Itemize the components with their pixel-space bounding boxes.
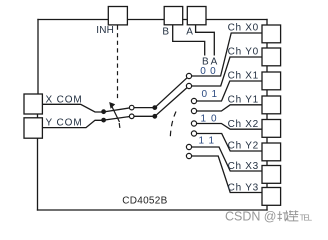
wire right column connectors <box>266 43 268 210</box>
pin box Ch X1 <box>262 72 281 90</box>
svg-text:Ch X3: Ch X3 <box>228 161 259 172</box>
wire contact 10Y to Ch Y2 <box>196 134 261 152</box>
contact circle 01X <box>191 98 196 103</box>
wire right rail to Ch X0 <box>266 20 268 26</box>
contact circle 01Y <box>191 108 196 113</box>
contact circle X break <box>129 105 134 110</box>
junction dot Y COM <box>101 118 106 123</box>
svg-text:B: B <box>162 27 169 38</box>
svg-text:Ch Y0: Ch Y0 <box>228 47 259 58</box>
wire Y switch segment <box>106 117 130 120</box>
contact circle 11X <box>186 144 191 149</box>
svg-text:Ch X1: Ch X1 <box>228 71 259 82</box>
wire X switch segment <box>106 108 130 112</box>
pin box Ch X0 <box>262 25 281 43</box>
contact circle Y break <box>129 114 134 119</box>
contact circle 10X <box>191 121 196 126</box>
wire Y switch to pivot <box>134 115 155 117</box>
dashed wiper travel arc <box>170 112 176 138</box>
wire X switch to pivot <box>134 107 155 109</box>
contact circle 00Y <box>186 83 191 88</box>
wire bottom rail <box>38 209 268 211</box>
pin box Ch X2 <box>262 120 281 138</box>
wire Y COM box to bottom rail <box>37 138 39 210</box>
svg-text:A: A <box>186 27 193 38</box>
watermark glyph cheng <box>278 210 289 221</box>
wire X wiper <box>155 78 187 107</box>
svg-text:Ch Y3: Ch Y3 <box>228 182 259 193</box>
svg-text:INH: INH <box>96 25 114 36</box>
wire Y COM to switch <box>42 120 102 127</box>
actuator arrowhead <box>109 102 115 109</box>
pivot dot X wiper <box>152 105 157 110</box>
wire contact 00Y to Ch Y0 <box>191 57 261 86</box>
svg-text:1 0: 1 0 <box>201 113 217 124</box>
pin box A <box>187 7 206 25</box>
pin box Ch Y1 <box>262 96 281 114</box>
svg-text:Ch Y2: Ch Y2 <box>228 141 259 152</box>
contact circle 10Y <box>191 131 196 136</box>
wire contact 11Y to Ch Y3 <box>191 156 261 193</box>
pin box Y COM <box>24 118 42 138</box>
pin box INH <box>108 7 127 25</box>
svg-text:Ch X0: Ch X0 <box>228 23 259 34</box>
contact circle 00X <box>186 73 191 78</box>
wire left rail <box>37 20 39 95</box>
wire Y wiper <box>155 88 187 116</box>
watermark glyph bao <box>289 210 299 221</box>
svg-text:CSDN @: CSDN @ <box>225 210 277 224</box>
inhibit dashed control line <box>117 26 119 100</box>
svg-text:Y COM: Y COM <box>46 118 82 129</box>
wire contact 11X to Ch X3 <box>191 147 261 171</box>
pivot dot Y wiper <box>152 114 157 119</box>
wire B select line <box>173 25 205 55</box>
wire A select line <box>196 25 215 55</box>
pin box Ch X3 <box>262 166 281 184</box>
switch gang bar <box>111 105 119 122</box>
pin box Ch Y2 <box>262 143 281 161</box>
pin box Ch Y0 <box>262 48 281 66</box>
svg-text:0 1: 0 1 <box>202 89 218 100</box>
svg-text:TEL: TEL <box>300 213 313 222</box>
svg-text:Ch X2: Ch X2 <box>228 119 259 130</box>
wire contact 10X to Ch X2 <box>196 124 261 130</box>
pin box Ch Y3 <box>262 188 281 206</box>
wire vertical between X COM and Y COM boxes <box>37 114 39 118</box>
junction dot X COM <box>101 109 106 114</box>
svg-text:Ch Y1: Ch Y1 <box>228 95 259 106</box>
pin box X COM <box>24 94 42 114</box>
wire contact 01X to Ch X1 <box>196 81 261 101</box>
svg-text:X COM: X COM <box>46 95 82 106</box>
wire top rail <box>38 19 267 21</box>
svg-text:0 0: 0 0 <box>200 66 216 77</box>
svg-text:CD4052B: CD4052B <box>122 196 167 207</box>
svg-text:1 1: 1 1 <box>199 135 215 146</box>
dashed segment below switch bar <box>119 123 120 131</box>
pin box B <box>164 7 183 25</box>
wire contact 01Y to Ch Y1 <box>196 105 261 111</box>
wire contact 00X to Ch X0 <box>191 33 261 76</box>
contact circle 11Y <box>186 153 191 158</box>
wire X COM to switch <box>42 104 102 112</box>
